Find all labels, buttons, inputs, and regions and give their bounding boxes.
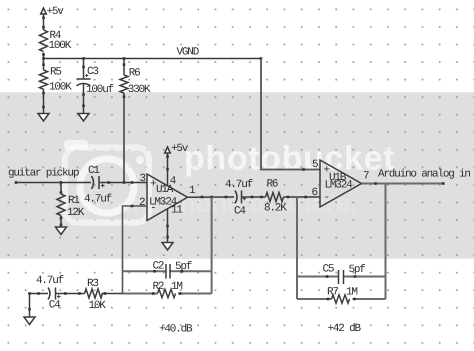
svg-text:5pf: 5pf <box>175 261 192 273</box>
wire R3 to feedback node <box>102 292 123 295</box>
ground R1 <box>56 227 67 235</box>
svg-text:12K: 12K <box>67 207 85 219</box>
watermark camera body <box>65 148 149 223</box>
capacitor C5 <box>297 263 386 284</box>
wire U1A pin 2 <box>123 197 148 294</box>
op-amp U1B <box>312 159 362 207</box>
resistor R3 <box>85 278 107 312</box>
wire C4 to R3 <box>56 292 85 295</box>
wire R6 to U1A pin 6 <box>284 187 321 199</box>
svg-text:R1: R1 <box>68 195 80 207</box>
watermark band <box>0 92 474 259</box>
wire C3 top <box>82 59 85 80</box>
wire C3 to ground <box>82 84 85 114</box>
wire R5 to ground <box>42 89 45 113</box>
svg-text:4.7uf: 4.7uf <box>225 179 253 191</box>
svg-text:3: 3 <box>140 173 146 185</box>
resistor R2 <box>123 281 212 298</box>
wire U1B output pin 7 to Arduino <box>362 169 471 185</box>
svg-text:11: 11 <box>171 205 183 217</box>
wire VGND rail drop to U1B pin 5 <box>261 59 320 171</box>
+5v supply symbol top-left <box>41 6 65 18</box>
watermark camera lens ring <box>80 159 134 213</box>
svg-text:+40.dB: +40.dB <box>159 323 193 335</box>
svg-text:7: 7 <box>363 171 369 183</box>
wire pin 11 to ground <box>166 205 183 243</box>
wire R1 to ground <box>60 216 63 227</box>
svg-text:10K: 10K <box>89 300 107 312</box>
wire R6 bias to pin3 node <box>123 93 126 183</box>
svg-text:6: 6 <box>312 187 318 199</box>
svg-text:C5: C5 <box>323 263 334 275</box>
resistor R5 <box>40 59 73 94</box>
node VGND rail <box>42 47 262 60</box>
svg-text:100uf: 100uf <box>86 84 114 96</box>
ground U1A pin 11 <box>162 243 173 251</box>
wire input C4 bottom net <box>28 292 48 295</box>
wire U1A feedback right vertical <box>211 197 213 294</box>
resistor R1 <box>57 183 85 220</box>
wire U1A output pin 1 <box>188 185 235 198</box>
svg-text:Arduino analog in: Arduino analog in <box>378 169 470 181</box>
svg-text:R3: R3 <box>87 278 98 290</box>
wire C1 to U1A pin 3 <box>100 173 148 185</box>
svg-text:C4: C4 <box>234 206 246 218</box>
svg-text:100K: 100K <box>49 82 72 94</box>
resistor R6 330K bias <box>120 59 151 97</box>
gain label stage 1 <box>159 323 193 335</box>
wire R4 to VGND rail <box>42 53 45 59</box>
wire +5v to R4 <box>42 14 45 30</box>
svg-text:4.7uf: 4.7uf <box>84 194 112 206</box>
svg-text:330K: 330K <box>128 84 151 96</box>
+5v supply U1A pin 4 <box>165 143 189 155</box>
svg-text:5: 5 <box>312 159 318 171</box>
svg-text:C1: C1 <box>88 165 100 177</box>
watermark camera dot <box>136 156 144 164</box>
svg-text:8.2K: 8.2K <box>264 203 287 215</box>
svg-text:4.7uf: 4.7uf <box>36 275 64 287</box>
wire U1B feedback right vertical <box>385 184 387 300</box>
wire pin 4 <box>166 153 177 188</box>
wire guitar pickup to C1 <box>15 181 91 184</box>
resistor R6 8.2K <box>264 178 287 214</box>
svg-text:2: 2 <box>139 197 145 209</box>
svg-text:C2: C2 <box>153 260 164 272</box>
svg-text:R2: R2 <box>153 281 164 293</box>
svg-text:5pf: 5pf <box>349 264 366 276</box>
svg-text:LM324: LM324 <box>325 180 354 192</box>
resistor R4 <box>40 30 72 52</box>
svg-text:100K: 100K <box>49 40 72 52</box>
wire C4 input to ground <box>28 294 31 318</box>
svg-text:1M: 1M <box>346 286 357 298</box>
svg-text:VGND: VGND <box>177 47 200 59</box>
capacitor C1 <box>84 165 112 206</box>
svg-text:R6: R6 <box>129 68 140 80</box>
capacitor C2 <box>123 260 212 278</box>
svg-text:R5: R5 <box>50 67 61 79</box>
ground input <box>24 317 35 325</box>
guitar pickup input label <box>8 168 79 180</box>
resistor R7 <box>297 286 386 303</box>
capacitor C4 input <box>36 275 64 311</box>
op-amp U1A <box>147 174 188 221</box>
capacitor C4 coupling <box>225 179 253 217</box>
svg-text:R7: R7 <box>327 286 338 298</box>
wire C4 to R6 <box>242 196 266 199</box>
svg-text:R6: R6 <box>267 178 278 190</box>
svg-text:C3: C3 <box>87 66 98 78</box>
svg-text:+42 dB: +42 dB <box>328 323 362 335</box>
svg-text:C4: C4 <box>49 299 61 311</box>
ground C3 <box>78 114 89 122</box>
svg-text:+5v: +5v <box>47 6 65 18</box>
wire U1B feedback left vertical <box>296 197 298 299</box>
svg-text:guitar pickup: guitar pickup <box>8 168 79 180</box>
svg-text:+5v: +5v <box>171 143 189 155</box>
svg-text:1M: 1M <box>171 281 182 293</box>
gain label stage 2 <box>328 323 362 335</box>
watermark camera flash <box>64 140 88 150</box>
capacitor C3 <box>77 66 114 96</box>
ground R5 <box>38 114 49 122</box>
svg-text:-: - <box>324 192 329 204</box>
